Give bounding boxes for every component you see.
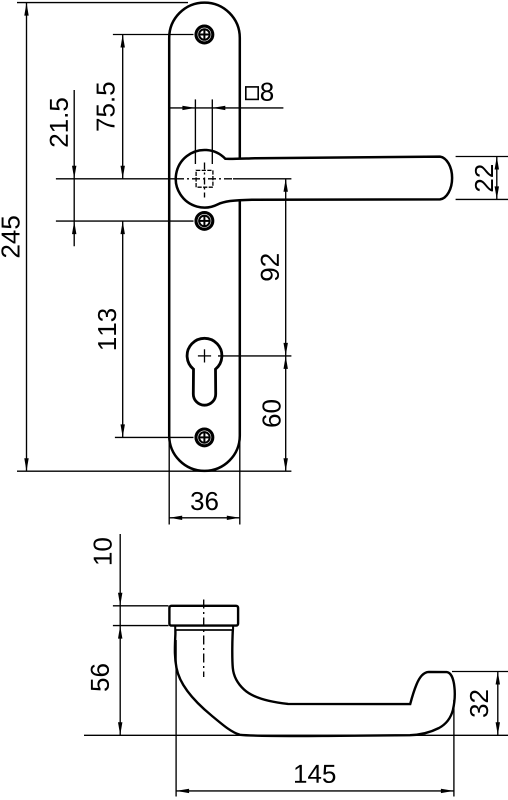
dimension 36 label xyxy=(191,492,218,510)
dimension 145 line xyxy=(176,790,454,792)
dimension 92 label xyxy=(261,254,279,280)
handle centerline (horizontal) xyxy=(56,178,176,180)
extension lines: lever bar (22) xyxy=(456,156,508,158)
dimension 145 label xyxy=(295,765,335,783)
dimension 21.5 line (outside arrows) xyxy=(73,90,75,246)
dimension 60 label xyxy=(262,400,280,427)
extension line: collar top (10) xyxy=(113,605,169,607)
dimension 245 label xyxy=(1,216,19,257)
extension line: bottom of plate (245/60) xyxy=(17,470,291,472)
bottom screw xyxy=(196,429,213,446)
keyhole center cross xyxy=(198,355,211,357)
dimension 75.5 line xyxy=(122,35,124,179)
dimension 60 line xyxy=(285,356,287,471)
extension line: grip left (145) xyxy=(175,640,177,797)
extension line: bottom screw center (113) xyxy=(115,436,194,438)
rose collar xyxy=(169,606,238,626)
square 8 dimension line (outside arrows) xyxy=(169,107,284,109)
extension line: grip bottom (56/32) xyxy=(84,734,508,736)
dimension 113 line xyxy=(122,221,124,437)
lever handle silhouette (boss + bar) xyxy=(176,150,452,208)
dimension 245 line xyxy=(26,3,28,472)
dimension 10 label xyxy=(93,538,111,564)
extension line: cylinder center (92/60) xyxy=(218,355,291,357)
dimension 22 label xyxy=(475,165,493,191)
rose collar lip xyxy=(175,626,233,630)
dimension 10/56 line xyxy=(119,534,121,735)
middle screw xyxy=(196,213,213,230)
spindle vertical centerline xyxy=(204,163,206,198)
dimension 113 label xyxy=(98,309,116,349)
dimension 36 line xyxy=(169,517,240,519)
side view centerline xyxy=(203,600,205,678)
dimension 92 line xyxy=(285,179,287,356)
euro cylinder keyhole xyxy=(187,338,222,405)
extension line: 36 right xyxy=(239,436,241,525)
spindle square (dashed hidden edge) xyxy=(196,170,213,187)
extension line: middle screw center (21.5/113) xyxy=(56,220,194,222)
extension line: top screw center (75.5) xyxy=(113,34,194,36)
square 8 label xyxy=(246,87,258,100)
extension line: collar bottom (10/56) xyxy=(113,625,169,627)
extension line: 36 left xyxy=(168,436,170,525)
dimension 56 label xyxy=(91,664,109,691)
extension line: top of plate (245) xyxy=(17,2,188,4)
lever neck and grip profile xyxy=(175,626,455,736)
square 8 extension lines xyxy=(194,99,196,164)
dimension 21.5 label xyxy=(50,98,68,146)
dimension 32 line xyxy=(497,672,499,736)
dimension 32 label xyxy=(470,690,488,717)
top screw xyxy=(196,26,213,43)
extension line: tip top (32) xyxy=(452,671,508,673)
backplate outline xyxy=(169,3,240,471)
dimension 75.5 label xyxy=(97,82,115,130)
dimension 22 line xyxy=(496,157,498,200)
extension line: tip right (145) xyxy=(453,700,455,797)
